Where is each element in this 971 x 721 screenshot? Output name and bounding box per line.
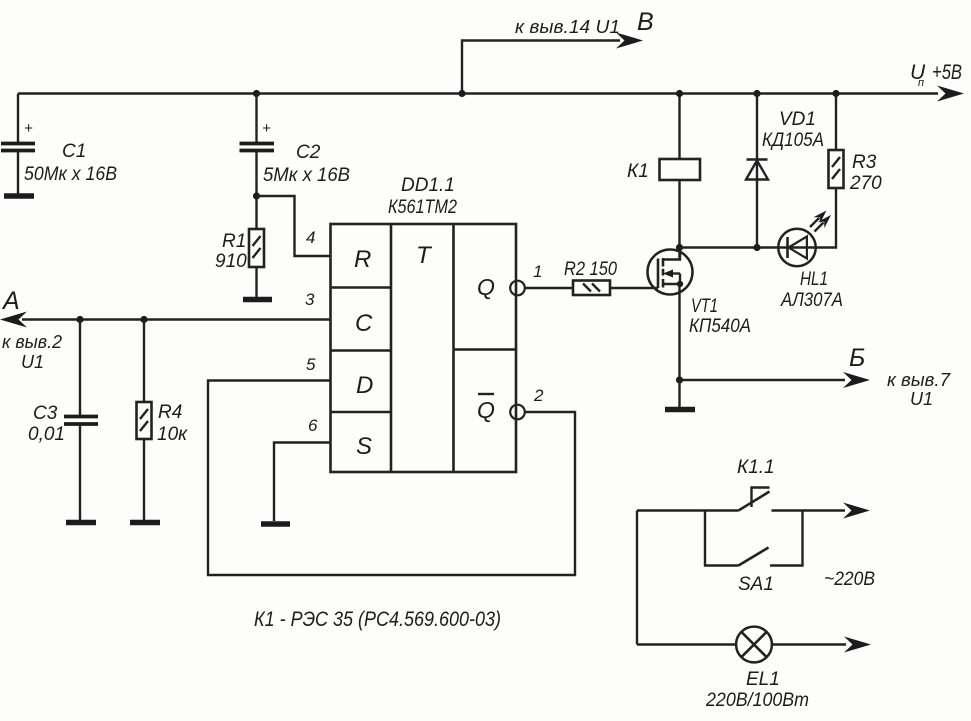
svg-text:50Мк х 16В: 50Мк х 16В bbox=[24, 164, 117, 185]
pin circle Q (pin 1) bbox=[510, 281, 525, 296]
svg-text:DD1.1: DD1.1 bbox=[401, 175, 455, 196]
svg-text:С2: С2 bbox=[296, 142, 321, 163]
flip-flop DD1.1 block bbox=[331, 224, 517, 472]
svg-text:EL1: EL1 bbox=[746, 669, 780, 690]
block section letters bbox=[354, 242, 495, 460]
svg-text:5Мк х 16В: 5Мк х 16В bbox=[263, 165, 350, 186]
node Un +5V arrow and label bbox=[910, 61, 964, 102]
svg-text:U1: U1 bbox=[910, 389, 933, 409]
wire drain node to R3 bottom (через VD1, HL1) bbox=[680, 188, 837, 248]
wire Q to R2 bbox=[525, 287, 573, 289]
junction R4 bbox=[140, 316, 147, 323]
LED HL1 bbox=[778, 207, 834, 266]
svg-text:R4: R4 bbox=[158, 402, 182, 423]
svg-text:R: R bbox=[354, 246, 371, 273]
arrow 220V bottom bbox=[844, 637, 871, 653]
svg-text:2: 2 bbox=[533, 386, 544, 405]
wire main +5V rail bbox=[18, 92, 938, 94]
svg-text:КД105А: КД105А bbox=[762, 130, 824, 151]
svg-text:910: 910 bbox=[215, 251, 247, 272]
svg-text:К1 - РЭС 35 (РС4.569.600-03): К1 - РЭС 35 (РС4.569.600-03) bbox=[254, 608, 501, 631]
wire rail to K1 coil bbox=[678, 94, 680, 160]
svg-text:к выв.2: к выв.2 bbox=[2, 332, 62, 352]
svg-text:А: А bbox=[1, 287, 20, 315]
junction source node bbox=[676, 376, 683, 383]
ground bar under R4 bbox=[130, 520, 160, 526]
ground under C1 bbox=[4, 193, 34, 199]
svg-text:+: + bbox=[262, 120, 271, 137]
svg-text:+5В: +5В bbox=[932, 61, 962, 84]
svg-text:S: S bbox=[356, 433, 372, 460]
transistor VT1 MOSFET bbox=[648, 248, 693, 295]
svg-text:АЛ307А: АЛ307А bbox=[780, 290, 843, 311]
svg-text:270: 270 bbox=[849, 173, 882, 194]
svg-text:R3: R3 bbox=[852, 152, 877, 173]
svg-text:Б: Б bbox=[849, 344, 865, 372]
SA1 branch left vertical bbox=[705, 511, 739, 566]
svg-text:1: 1 bbox=[533, 262, 542, 281]
svg-text:10к: 10к bbox=[157, 424, 188, 445]
svg-text:HL1: HL1 bbox=[800, 269, 828, 290]
svg-text:Q: Q bbox=[477, 274, 495, 300]
svg-text:R2 150: R2 150 bbox=[564, 259, 617, 280]
svg-text:~220В: ~220В bbox=[824, 569, 875, 590]
node Б arrow bbox=[843, 372, 870, 388]
svg-text:220В/100Вт: 220В/100Вт bbox=[705, 690, 809, 711]
node Б wire bbox=[680, 284, 846, 380]
resistor R4 bbox=[137, 320, 152, 521]
svg-text:VD1: VD1 bbox=[779, 109, 816, 130]
svg-text:+: + bbox=[24, 120, 33, 137]
svg-text:R1: R1 bbox=[222, 231, 246, 252]
svg-text:С1: С1 bbox=[62, 141, 86, 162]
arrow 220V top bbox=[843, 503, 870, 519]
node A arrow bbox=[0, 312, 27, 328]
lamp EL1 bbox=[736, 627, 772, 663]
junction drain node bbox=[676, 244, 683, 251]
SA1 right wire bbox=[770, 511, 803, 566]
svg-text:D: D bbox=[356, 372, 373, 399]
lamp EL1 circuit bottom wire bbox=[637, 643, 736, 645]
resistor R1 bbox=[249, 196, 264, 297]
K1.1 contact mark bbox=[752, 488, 770, 508]
svg-text:3: 3 bbox=[305, 290, 315, 309]
svg-text:U1: U1 bbox=[21, 352, 44, 372]
wire C2 junction to pin 4 (R input) bbox=[257, 196, 331, 256]
wire K1 to VT1 drain bbox=[678, 180, 680, 260]
capacitor C1 bbox=[1, 94, 35, 195]
feedback wire Q-bar to D input bbox=[208, 381, 575, 576]
svg-text:C: C bbox=[355, 310, 373, 337]
svg-text:5: 5 bbox=[306, 355, 316, 374]
capacitor C2 bbox=[240, 90, 275, 196]
svg-text:В: В bbox=[637, 8, 654, 36]
svg-text:T: T bbox=[416, 242, 433, 269]
svg-text:К1: К1 bbox=[627, 161, 649, 182]
node A wire (C input line) bbox=[22, 318, 331, 320]
svg-text:п: п bbox=[918, 77, 924, 89]
node B branch wire bbox=[462, 41, 620, 94]
diode VD1 bbox=[746, 90, 768, 251]
wire S input to ground bbox=[274, 443, 331, 522]
left vertical wire bbox=[636, 511, 638, 645]
junction rail/K1 bbox=[676, 90, 683, 97]
node B junction on rail bbox=[458, 90, 465, 97]
ground under R1 bbox=[243, 297, 272, 303]
wire after EL1 bbox=[772, 643, 846, 645]
wire after K1.1 to arrow bbox=[772, 509, 846, 511]
junction C3 bbox=[76, 316, 83, 323]
relay coil K1 bbox=[660, 159, 701, 180]
relay contact K1.1 circuit: left wire bbox=[637, 509, 739, 511]
svg-text:SA1: SA1 bbox=[738, 574, 774, 595]
svg-text:С3: С3 bbox=[33, 403, 58, 424]
svg-text:0,01: 0,01 bbox=[28, 424, 65, 445]
K1.1 contact blade bbox=[739, 492, 770, 511]
resistor R3 bbox=[829, 90, 844, 188]
junction below C2 bbox=[253, 192, 260, 199]
ground bar under C3 bbox=[66, 520, 96, 526]
resistor R2 bbox=[573, 281, 610, 296]
switch SA1 blade bbox=[739, 548, 769, 566]
pin circle Q-bar (pin 2) bbox=[510, 405, 525, 420]
capacitor C3 bbox=[64, 320, 98, 521]
ground under S bbox=[261, 521, 290, 527]
wire R2 to VT1 gate bbox=[610, 287, 658, 289]
svg-text:КП540А: КП540А bbox=[689, 316, 751, 337]
ground under VT1 bbox=[678, 380, 680, 407]
svg-text:VT1: VT1 bbox=[691, 296, 718, 317]
svg-text:К561ТМ2: К561ТМ2 bbox=[388, 197, 457, 218]
node B arrow bbox=[616, 33, 643, 49]
svg-text:4: 4 bbox=[306, 228, 315, 247]
svg-text:6: 6 bbox=[308, 416, 318, 435]
svg-text:Q: Q bbox=[477, 397, 495, 423]
svg-text:к выв.7: к выв.7 bbox=[887, 370, 951, 390]
svg-text:к выв.14 U1: к выв.14 U1 bbox=[515, 17, 620, 37]
svg-text:К1.1: К1.1 bbox=[737, 457, 775, 478]
